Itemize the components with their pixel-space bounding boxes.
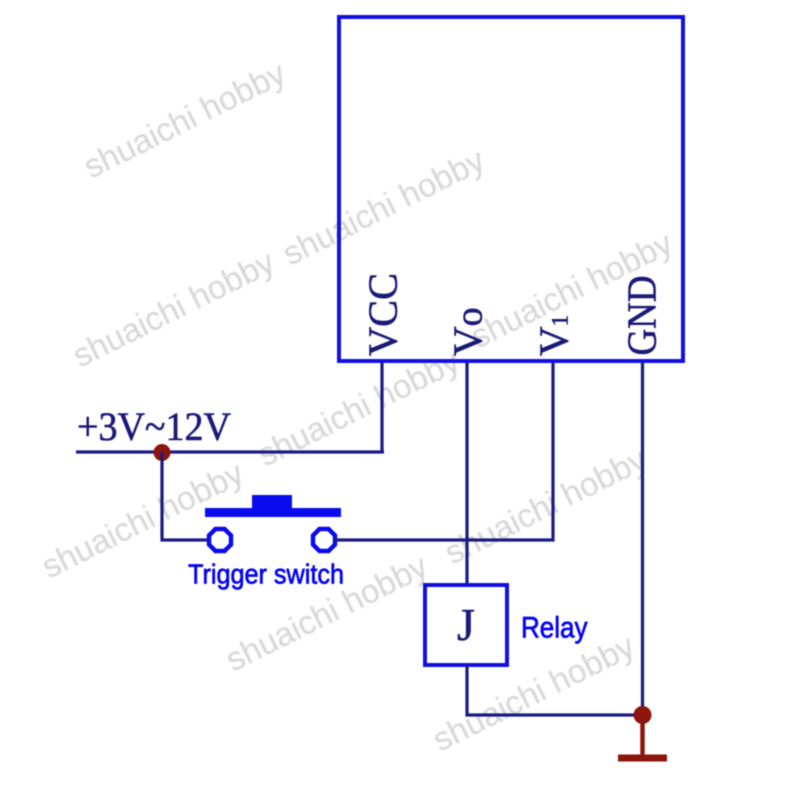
- module box U1: [339, 17, 683, 361]
- svg-text:J: J: [457, 599, 475, 650]
- ground: [618, 715, 667, 762]
- watermark: [36, 54, 679, 759]
- wire relay bottom to ground node: [467, 665, 643, 715]
- wire +3V supply rail: [76, 450, 384, 453]
- wire junction down to switch: [162, 452, 210, 540]
- svg-text:shuaichi hobby: shuaichi hobby: [277, 141, 491, 273]
- svg-text:shuaichi hobby: shuaichi hobby: [439, 440, 653, 572]
- svg-text:VCC: VCC: [360, 273, 406, 356]
- junction dot node A: [154, 444, 171, 461]
- svg-text:Trigger switch: Trigger switch: [188, 559, 344, 590]
- junction dot node B: [634, 706, 652, 724]
- svg-text:shuaichi hobby: shuaichi hobby: [67, 243, 281, 375]
- svg-text:+3V~12V: +3V~12V: [77, 404, 231, 449]
- wire Vo pin to relay: [465, 363, 468, 585]
- svg-text:Relay: Relay: [521, 612, 588, 645]
- trigger switch S1: [205, 495, 341, 551]
- svg-text:shuaichi hobby: shuaichi hobby: [78, 54, 292, 186]
- wire VCC pin stub: [380, 363, 383, 452]
- svg-text:GND: GND: [619, 276, 665, 356]
- wire switch to V1 pin: [334, 363, 553, 540]
- svg-text:Vo: Vo: [445, 307, 491, 356]
- relay J box: [425, 585, 507, 665]
- wire GND pin stub: [641, 363, 644, 715]
